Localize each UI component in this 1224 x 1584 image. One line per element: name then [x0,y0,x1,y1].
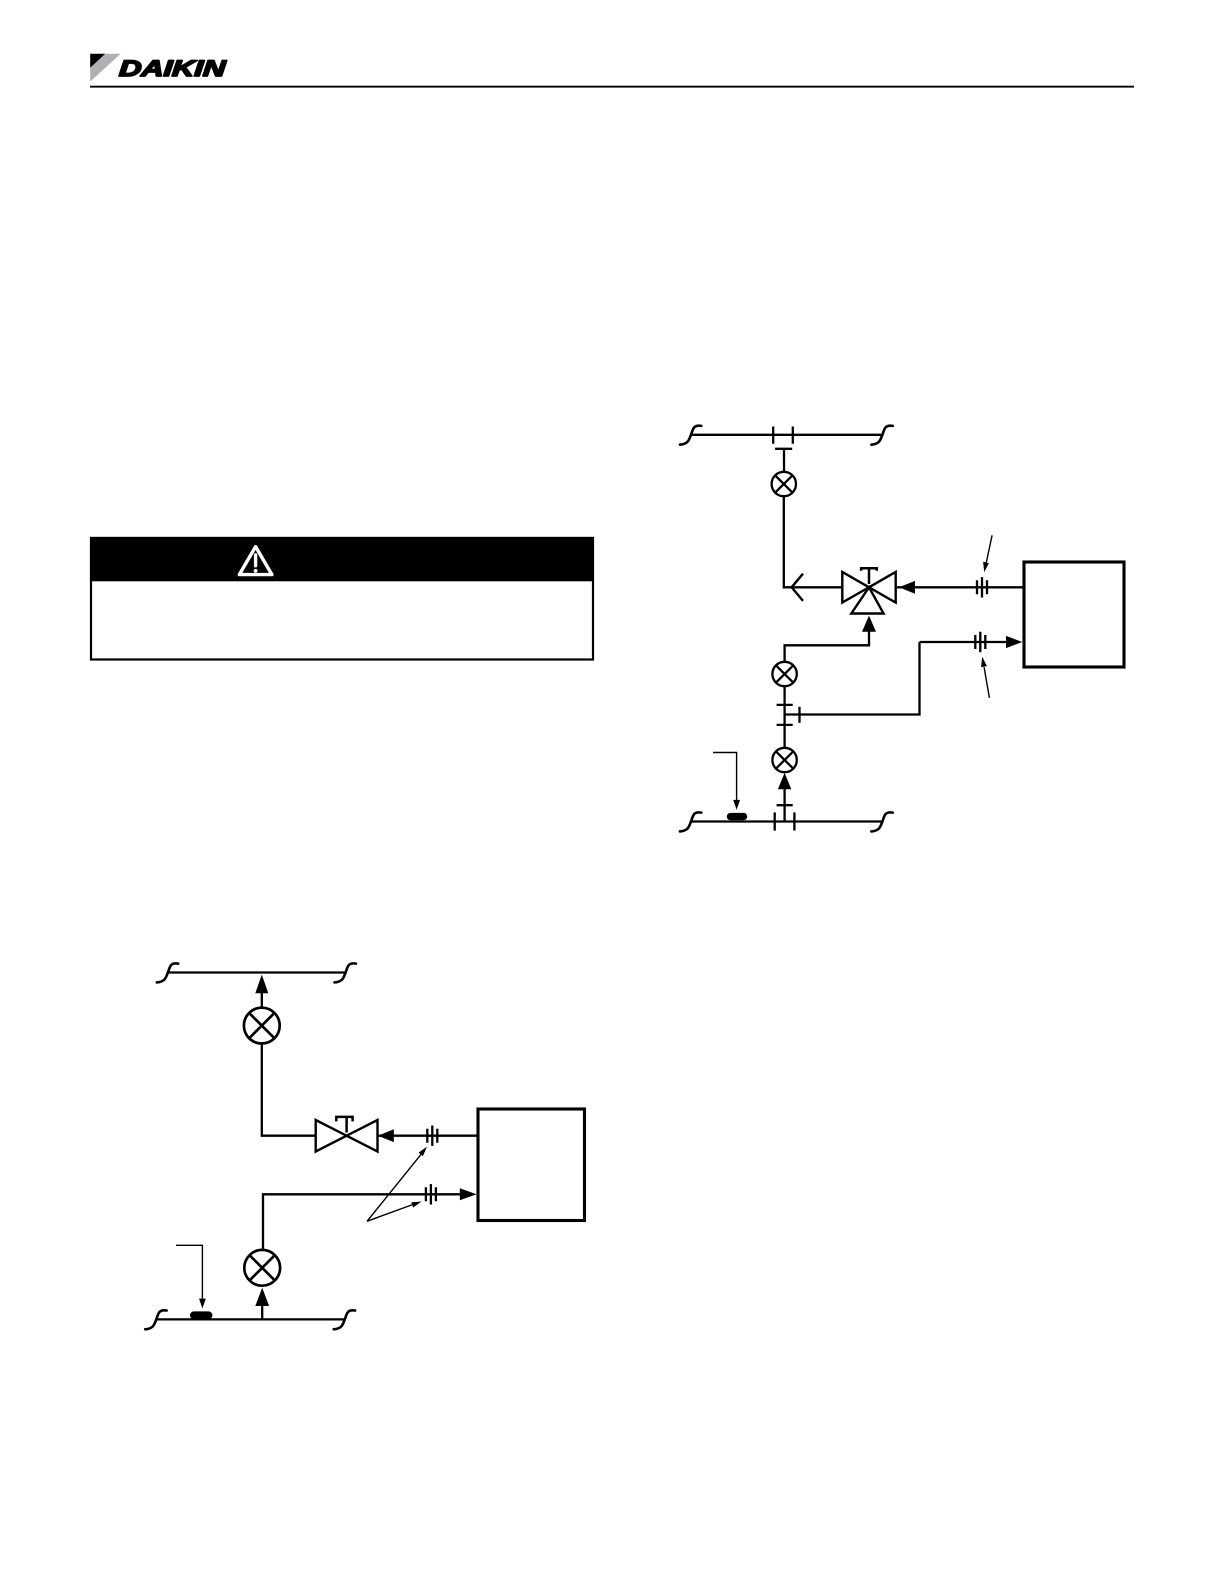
header rule [90,86,1134,88]
supply pipe (top) [691,434,882,436]
flow arrow up into 3-way valve bottom port [862,616,876,632]
wire: below valve V6 to return pipe [261,1303,263,1320]
union on unit inlet line [977,577,987,597]
warning box black band [90,537,594,581]
wire: below valve V3 to return pipe [783,787,785,822]
pipe break bottom-right [334,1310,355,1329]
union on unit outlet line [975,632,985,652]
pipe break top-left [680,426,701,445]
callout arrow to inlet union [986,535,992,562]
wire: elbow down and left to tee [785,642,920,715]
pipe break bottom-right [871,812,892,831]
branch cap bar above return pipe [777,804,793,806]
DAIKIN logo mark (black triangle) [90,54,105,68]
tee tick lower on vertical run [777,724,793,726]
tee tick upper on vertical run [777,704,793,706]
flow arrow up into supply pipe [255,975,268,994]
unit box [478,1109,585,1221]
wire: valve V1 to elbow [784,496,843,587]
pipe break bottom-left [680,812,701,831]
warning triangle icon [239,547,272,575]
tee tick right on return pipe [793,812,795,830]
return pipe (bottom) [156,1318,344,1320]
3-way valve actuator [861,568,877,584]
gate valve with actuator [316,1120,378,1152]
callout elbow arrow to flow cap [176,1245,202,1298]
pipe break bottom-left [145,1310,166,1329]
union on unit outlet line [426,1184,436,1204]
wire: arrow tail to valve V4 [261,991,263,1008]
flow arrow into unit [1006,636,1022,648]
wire: unit outlet left run and elbow down [263,1194,460,1250]
wire: between valve V2 and valve V3 [783,686,785,748]
tee tick right on top pipe [792,427,794,444]
3-way mixing valve [842,572,895,614]
flow arrow into 3-way valve (from unit) [899,581,915,594]
flow arrow into unit [460,1188,477,1200]
pipe break top-left [157,963,178,982]
tee tick left on return pipe [774,812,776,830]
callout fork to both unions [367,1154,421,1221]
supply pipe (top) [167,971,345,973]
shutoff valve V2 [772,662,796,686]
flow cap (black oval) on return pipe [727,813,747,820]
wire: unit lower port left run [920,641,1007,643]
wire: 3-way valve right port to unit [897,586,1023,588]
gate valve actuator [336,1117,352,1133]
unit box [1024,562,1124,667]
tee tick left on top pipe [772,427,774,444]
svg-text:DAIKIN: DAIKIN [118,56,227,81]
wire: valve V4 down and right to gate valve [262,1044,316,1136]
wire: 3-way valve bottom port elbow [785,630,869,662]
pipe break top-right [335,963,356,982]
flow arrow into gate valve (from unit) [378,1129,394,1142]
flow cap (black oval) on return pipe [190,1311,212,1319]
callout arrow to outlet union [984,667,989,698]
warning box body [91,538,593,660]
DAIKIN logo mark (gray slash) [90,54,120,82]
flow arrow up below valve V3 [778,773,791,790]
callout elbow arrow to flow cap [713,753,737,801]
branch cap bar below top pipe [775,448,792,450]
flow arrow up below valve V6 [255,1288,269,1306]
union on unit inlet line [427,1126,437,1146]
shutoff valve V4 [244,1008,280,1044]
return pipe (bottom) [691,820,882,822]
shutoff valve V1 [772,472,796,496]
shutoff valve V3 [772,748,796,772]
wire: gate valve to unit [378,1135,478,1137]
shutoff valve V6 [244,1250,280,1286]
branch tick on horizontal tee line [798,707,800,723]
branch riser wire [783,450,785,472]
pipe break top-right [871,426,892,445]
flow arrow (open) on left run [792,574,803,601]
